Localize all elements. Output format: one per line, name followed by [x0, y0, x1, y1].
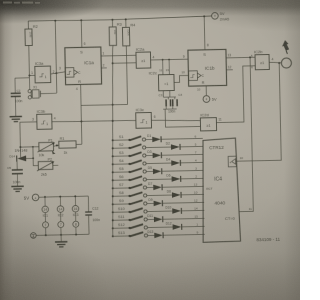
switch S2: [112, 147, 114, 149]
wire C3 C4 bottom bus: [163, 108, 176, 110]
wire IC2d output to IC2b input 2: [215, 66, 256, 123]
wire IC2a output to IC1b D input: [151, 58, 188, 61]
diode D13: [148, 234, 155, 236]
switch S4: [112, 163, 114, 165]
wire rail drop at x58: [55, 21, 56, 73]
logic gate IC2d: [200, 118, 216, 131]
switch S11: [112, 219, 114, 221]
switch S12: [112, 227, 114, 229]
logic gate IC3a: [35, 66, 51, 83]
wire D4 to IC4: [180, 161, 203, 163]
connector 5V power terminal: [32, 194, 39, 201]
wire bus to IC2a input 2: [112, 62, 114, 64]
wire IC3c output to IC2d input 1: [151, 119, 200, 122]
switch S1: [112, 139, 114, 141]
pin 2 IC1a stub: [101, 67, 106, 69]
connector output terminal: [281, 58, 291, 68]
capacitor C12: [87, 196, 89, 212]
resistor R2: [25, 29, 32, 46]
wire D10 to IC4: [181, 209, 204, 211]
logic gate IC2b: [255, 54, 269, 69]
resistor R3: [109, 27, 116, 46]
logic gate IC3b: [37, 114, 52, 129]
wire P2 stub: [53, 164, 58, 166]
wire D3 to IC4: [161, 153, 203, 156]
wire R1 to vertical net: [76, 143, 82, 145]
switch S3: [112, 155, 114, 157]
wire D12 to IC4: [182, 225, 205, 227]
switch S10: [112, 211, 114, 213]
diode D3: [146, 154, 153, 156]
wire connector down to IC4 clock: [234, 63, 281, 161]
diode D4: [146, 162, 171, 165]
clock input symbol IC4: [228, 156, 236, 167]
pin 8 IC1b set wire to rail: [203, 16, 206, 50]
ground symbol on bus: [60, 235, 62, 241]
wire D2 to IC4: [180, 145, 203, 147]
wire C2 to ground: [14, 96, 16, 116]
logic gate IC2a: [136, 52, 151, 68]
diode D7: [147, 186, 154, 188]
wire D5 to IC4: [162, 169, 204, 172]
ground: [10, 115, 22, 117]
switch S7: [112, 187, 114, 189]
wire IC3b output to IC3c input: [52, 120, 136, 122]
arrow annotation: [282, 40, 289, 51]
wire R2 to IC3a input: [28, 46, 31, 76]
wire IC4 reset from IC1b output: [236, 57, 254, 211]
clock symbol IC1a: [65, 68, 74, 78]
wire IC1a reset to key bus: [81, 103, 127, 106]
wire D14 anode to pot chain: [26, 157, 33, 159]
switch S8: [112, 195, 114, 197]
header text marks in dark strip: [3, 2, 40, 4]
wire IC2c bottom pins to C3 C4: [162, 91, 164, 97]
capacitor C5: [12, 169, 23, 171]
logic gate IC2c: [158, 74, 174, 90]
wire D11 to IC4: [163, 217, 205, 220]
pin 6 IC1a set wire to rail: [80, 20, 83, 47]
wire D8 to IC4: [181, 193, 204, 195]
switch S9: [112, 203, 114, 205]
diode D5: [146, 170, 153, 172]
diode D9: [147, 202, 154, 204]
wire rail to R3: [111, 20, 113, 27]
ground: [11, 185, 23, 187]
potentiometer P1: [39, 142, 54, 151]
switch S6: [112, 179, 114, 181]
capacitor C2: [14, 78, 16, 93]
connector 5V at IC1b reset: [203, 96, 210, 103]
pin 4 IC1a reset wire down: [81, 84, 82, 144]
wire P1 to R1: [53, 145, 58, 146]
wire rail to R4: [125, 19, 127, 27]
switch S5: [112, 171, 114, 173]
wire D7 to IC4: [162, 185, 204, 188]
wire D13 to IC4: [163, 233, 205, 236]
wire IC2c output to IC1b clock: [174, 75, 189, 82]
wire IC2b output to connector: [269, 62, 281, 63]
clock symbol IC1b: [189, 71, 198, 81]
wire oscillator loop top: [28, 76, 30, 78]
wire crystal to IC3a output branch: [40, 92, 56, 95]
crystal X1: [28, 78, 30, 90]
switch S13: [112, 235, 114, 237]
connector ground terminal: [31, 233, 37, 239]
key bus vertical wire: [109, 45, 117, 236]
diode D2: [146, 146, 171, 149]
capacitor C4: [174, 97, 176, 99]
diode D11: [147, 218, 154, 220]
wire pot chain: [33, 147, 38, 166]
wire D1 to IC4: [161, 137, 203, 140]
pin 13 IC1b output to IC2b: [226, 56, 255, 59]
wire ground bus: [36, 234, 89, 235]
wire IC1b reset to 5V: [205, 86, 207, 96]
capacitor C3: [167, 97, 169, 99]
wire D14 to C5: [16, 162, 18, 170]
wire +5V top supply rail: [28, 16, 211, 22]
resistor R4: [122, 27, 129, 46]
wire R4 down to reset net: [126, 46, 127, 105]
resistor R1: [59, 141, 76, 148]
wire IC3b input from left: [20, 122, 38, 157]
flip-flop IC1b: [188, 49, 227, 86]
counter IC4 4040: [201, 138, 241, 242]
diode D10: [147, 210, 172, 213]
pin 1 IC1a output to IC2a: [101, 54, 136, 57]
diode D8: [147, 194, 172, 197]
connector +5V supply terminal: [212, 12, 219, 19]
wire caps to IC2d input 2: [165, 108, 200, 127]
ground: [55, 241, 67, 243]
diode D12: [148, 226, 173, 229]
node rail junction dots: [54, 20, 56, 22]
logic gate IC3c: [136, 112, 152, 128]
diode D6: [147, 178, 172, 181]
wire rail to R2: [27, 21, 29, 29]
wire D9 to IC4: [162, 201, 204, 204]
power pins IC2: [59, 197, 61, 206]
potentiometer P2: [38, 161, 53, 169]
wire oscillator branch down: [55, 73, 57, 93]
wire D6 to IC4: [181, 177, 204, 179]
wire IC3a output to IC1a clock: [51, 72, 66, 74]
pin 12 IC1b stub: [226, 69, 232, 71]
power pins IC1: [44, 197, 46, 206]
wire to pots: [20, 146, 32, 148]
flip-flop IC1a: [65, 47, 102, 85]
diode D1: [146, 138, 153, 140]
wire C5 to ground: [16, 174, 18, 186]
wire stubs to IC2c inputs: [162, 60, 164, 75]
power pins IC3: [74, 196, 76, 205]
